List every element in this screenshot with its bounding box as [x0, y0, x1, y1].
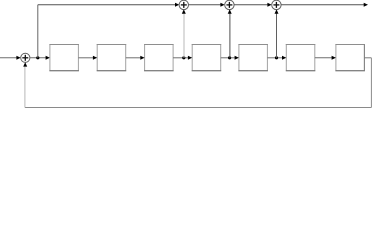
arrowhead into register D4	[188, 56, 192, 60]
arrowhead up into adder A2	[182, 9, 186, 13]
node N3 (tap junction after D4)	[228, 56, 231, 59]
adder A3 (top XOR 2)	[225, 0, 234, 9]
adder A4 (top XOR 3)	[272, 0, 281, 9]
arrowhead into adder A2	[175, 3, 179, 7]
wire adder A1 to register D1	[30, 57, 46, 59]
wire input line from left edge	[0, 57, 17, 59]
wire top rail segment to adder A2	[38, 4, 175, 6]
wire tap 2 vertical up to adder A3	[229, 12, 231, 58]
arrowhead into register D2	[93, 56, 97, 60]
register D3	[144, 45, 174, 71]
register D2	[97, 45, 127, 71]
register D6	[286, 45, 316, 71]
arrowhead output at top right	[364, 3, 368, 7]
register D1	[49, 45, 79, 71]
wire D5 to D6	[267, 57, 282, 59]
arrowhead into register D1	[46, 56, 50, 60]
arrowhead into register D5	[235, 56, 239, 60]
arrowhead into register D6	[282, 56, 286, 60]
wire top rail segment A2 to A3	[189, 4, 221, 6]
wire feedback bottom rail	[25, 107, 372, 109]
wire top rail output segment to right edge	[281, 4, 364, 6]
wire D7 output to right vertical	[364, 57, 371, 59]
wire top rail segment A3 to A4	[234, 4, 268, 6]
register D5	[238, 45, 268, 71]
arrowhead into register D7	[332, 56, 336, 60]
wire D2 to D3	[126, 57, 141, 59]
wire tap 3 vertical up to adder A4	[276, 12, 278, 58]
arrowhead up into adder A3	[228, 9, 232, 13]
arrowhead up into adder A4	[275, 9, 279, 13]
register D7	[335, 45, 365, 71]
arrowhead up into adder A1	[23, 62, 27, 66]
node N4 (tap junction after D5)	[275, 56, 278, 59]
adder A1 (input XOR)	[21, 53, 30, 62]
wire D6 to D7	[315, 57, 332, 59]
arrowhead into adder A1	[16, 56, 20, 60]
wire feedback left vertical up to adder A1	[24, 66, 26, 108]
wire D3 to D4	[173, 57, 188, 59]
arrowhead into adder A3	[220, 3, 224, 7]
wire tap 1 vertical up to adder A2	[183, 13, 185, 58]
node N1 (junction after adder A1)	[36, 56, 39, 59]
wire D4 to D5	[221, 57, 235, 59]
wire D1 to D2	[78, 57, 93, 59]
arrowhead into register D3	[140, 56, 144, 60]
wire feedback right vertical	[370, 58, 372, 108]
adder A2 (top XOR 1)	[179, 0, 188, 9]
register D4	[192, 45, 222, 71]
wire feedforward vertical from node N1 up to top rail	[37, 5, 39, 58]
arrowhead into adder A4	[267, 3, 271, 7]
node N2 (tap junction after D3)	[182, 56, 185, 59]
